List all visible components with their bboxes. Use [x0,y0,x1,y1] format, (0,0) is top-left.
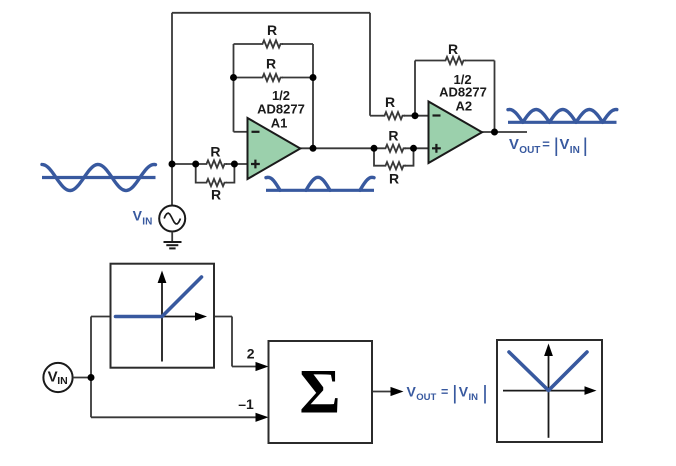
resistor R (A1 noninverting top) [204,160,227,167]
wire A2 parallel loop right vertical [405,148,414,165]
svg-text:R: R [385,94,395,110]
resistor R (A2 noninverting top) [383,145,406,152]
svg-text:A2: A2 [455,98,472,113]
wire A1 feedback second row left [234,77,261,79]
resistor R (A2 feedback) [443,57,466,64]
input sine centerline [42,176,156,179]
output VOUT label bottom [407,383,486,403]
junction dot A1 feedback left [230,74,237,81]
wire A1 output to A2 plus network [299,147,374,149]
svg-text:A1: A1 [271,116,288,131]
svg-text:=: = [542,137,550,152]
svg-text:V: V [459,383,469,399]
wire A1 inverting input stub [234,131,249,133]
full-wave rectified waveform baseline [508,121,617,124]
wire A2 inverting row right [404,115,429,117]
wire gain 2 branch to summer [232,366,257,368]
wire transfer block output [214,316,232,318]
svg-text:Σ: Σ [299,357,340,427]
ground symbol [164,242,182,248]
block diagram source VIN circle [43,363,72,392]
transfer block vertical axis [161,282,163,362]
wire A2 feedback right vertical to output [494,61,496,133]
junction dot A1 plus network left [192,161,199,168]
wire summer output [372,391,392,393]
wire A2 feedback left vertical [414,61,416,116]
svg-text:V: V [48,369,58,386]
summing block box [269,341,373,443]
wire A2 parallel loop left vertical [374,148,383,165]
svg-text:OUT: OUT [519,145,540,156]
output graph horizontal axis [503,390,586,392]
transfer block rectifier curve [116,277,202,317]
svg-text:R: R [211,187,221,203]
svg-text:R: R [267,22,277,38]
svg-text:IN: IN [570,145,580,156]
wire A2 feedback top row left [415,60,443,62]
output graph horizontal axis arrowhead [585,386,597,395]
svg-text:OUT: OUT [416,392,436,403]
A2 inverting pin minus sign [433,114,441,116]
junction dot A2 output [491,129,498,136]
svg-text:2: 2 [247,346,255,362]
transfer function block box [111,264,215,368]
wire down to A2 inverting branch [369,13,371,116]
wire node up to transfer block branch [90,317,92,378]
svg-text:R: R [210,144,220,160]
wire A1 feedback right vertical to output [312,44,314,148]
wire input node up left rail [171,13,173,164]
junction dot A1 feedback right [310,74,317,81]
junction dot A1 output [310,145,317,152]
half-wave rectified waveform baseline [266,189,374,192]
junction dot A2 plus network left [371,145,378,152]
wire A1 plus row right [226,163,249,165]
resistor R (A2 noninverting bottom) [383,162,406,169]
junction dot input node [169,161,176,168]
full-wave rectified waveform humps [508,110,617,123]
output graph vertical axis arrowhead [544,344,553,357]
wire A1 parallel loop right vertical [226,164,234,183]
wire down to gain 2 branch [231,317,233,367]
svg-text:V: V [407,383,417,399]
resistor R (A1 feedback top) [260,40,283,47]
svg-text:–1: –1 [238,396,254,412]
arrowhead gain -1 into summer [256,413,269,422]
svg-text:V: V [133,208,143,224]
A1 inverting pin minus sign [252,131,260,133]
wire A1 feedback left vertical [233,44,235,132]
svg-text:IN: IN [142,217,152,228]
arrowhead summer output [391,387,404,396]
junction dot A2 plus network right [410,145,417,152]
wire input node to A1 plus network [172,163,204,165]
wire A1 feedback top row right [282,43,313,45]
wire A1 feedback second row right [282,77,313,79]
svg-text:IN: IN [57,375,67,387]
A1 noninverting pin plus sign [251,160,260,169]
svg-text:=: = [441,385,448,399]
wire A2 output [481,131,527,133]
junction dot A2 inverting node [412,112,419,119]
output graph absolute value curve [509,352,587,391]
svg-text:V: V [509,137,519,153]
op-amp U2 A2 triangle [429,102,483,164]
node VOUT label top [509,137,585,157]
wire VIN source to input node [171,164,173,206]
node VIN label [133,208,153,228]
transfer block horizontal axis arrowhead [195,312,207,321]
svg-text:V: V [560,137,570,153]
wire source to node [73,377,91,379]
input sine waveform [42,165,156,191]
voltage source sine symbol [164,213,180,224]
half-wave rectified waveform humps [266,177,374,190]
resistor R (A1 feedback second) [260,74,283,81]
wire A1 feedback top row left [234,43,261,45]
svg-text:IN: IN [469,392,479,403]
wire A2 plus row segments [374,147,430,149]
svg-text:R: R [266,56,276,72]
junction dot A1 plus network right [231,161,238,168]
arrowhead gain 2 into summer [256,362,269,371]
block diagram VIN label [48,369,68,387]
output graph box [497,340,602,442]
A2 noninverting pin plus sign [432,144,441,153]
wire A1 parallel loop left vertical [196,164,204,183]
resistor R (A2 inverting input) [382,112,405,119]
svg-text:AD8277: AD8277 [439,84,487,99]
wire A2 inverting row left [370,115,382,117]
op-amp U1 A1 triangle [248,118,301,179]
svg-text:AD8277: AD8277 [257,101,305,116]
transfer block vertical axis arrowhead [158,271,167,284]
wire source to ground [171,232,173,242]
wire into transfer block [91,316,111,318]
wire gain -1 branch to summer [91,416,257,418]
wire top rail [172,12,370,14]
svg-text:R: R [388,127,398,143]
svg-text:R: R [389,170,399,186]
junction dot block diagram input node [88,374,95,381]
wire A2 feedback top row right [465,60,495,62]
wire node down to gain -1 branch [90,378,92,418]
svg-text:R: R [448,41,458,57]
voltage source VIN circle [159,206,185,232]
resistor R (A1 noninverting bottom) [204,179,227,186]
output graph vertical axis [548,355,550,438]
transfer block horizontal axis [162,316,197,318]
